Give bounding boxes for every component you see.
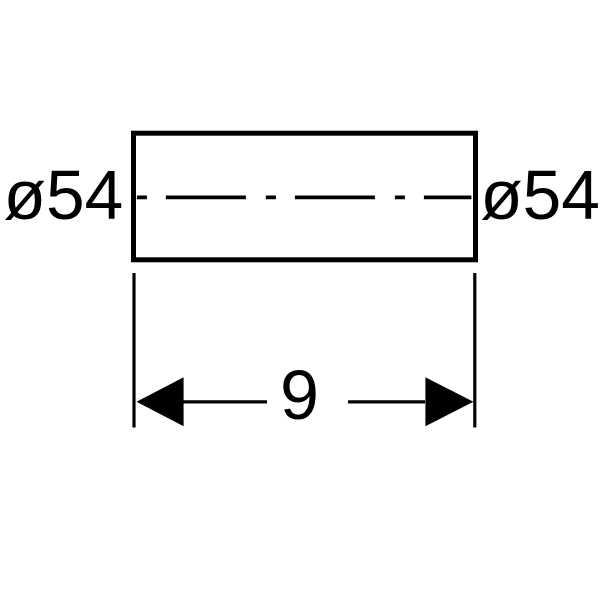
arrowhead left bbox=[137, 377, 184, 426]
svg-text:ø54: ø54 bbox=[4, 156, 124, 234]
svg-text:9: 9 bbox=[280, 356, 319, 434]
dimension line left segment bbox=[183, 400, 267, 403]
extension line right bbox=[473, 273, 476, 428]
centerline (dash-dot axis) bbox=[137, 196, 472, 200]
body outline (cylinder side view rectangle) bbox=[134, 133, 476, 260]
extension line left bbox=[132, 273, 135, 428]
arrowhead right bbox=[425, 377, 473, 426]
svg-text:ø54: ø54 bbox=[480, 156, 600, 234]
dimension line right segment bbox=[348, 400, 425, 403]
